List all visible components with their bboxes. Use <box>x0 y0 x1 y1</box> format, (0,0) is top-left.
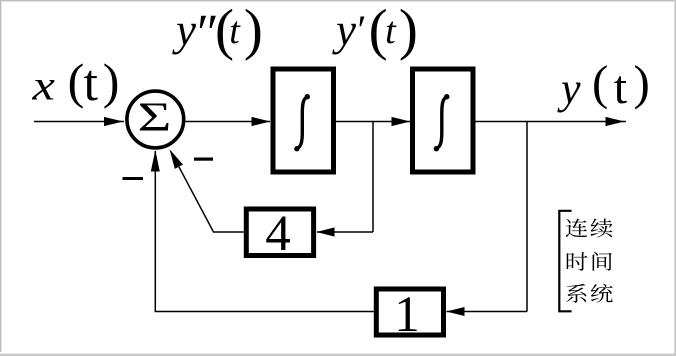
integrator block 2 <box>413 69 474 172</box>
node tap output <box>526 122 528 312</box>
summing junction U1 circle <box>127 91 184 148</box>
integrator block 1 <box>273 69 334 172</box>
minus sign near diagonal feedback <box>194 158 213 161</box>
wire integrator2 to output y(t) <box>476 121 627 123</box>
border frame left <box>0 0 1 352</box>
wire input x(t) to summer <box>34 121 124 123</box>
border frame right <box>674 0 676 356</box>
integral sign 2 <box>434 94 450 151</box>
svg-text:4: 4 <box>265 206 291 262</box>
arrowhead into block K1 <box>446 307 464 316</box>
svg-text:y: y <box>172 5 196 55</box>
label y''(t) <box>172 0 263 62</box>
label y'(t) <box>332 0 418 62</box>
border frame bottom <box>0 354 676 356</box>
svg-text:(: ( <box>592 55 608 110</box>
arrowhead diagonal into summer <box>170 149 184 169</box>
svg-text:(: ( <box>68 53 85 109</box>
svg-text:y: y <box>557 64 581 113</box>
svg-text:t: t <box>614 61 628 114</box>
bracket for annotation <box>559 211 571 311</box>
annotation text 时 <box>567 252 588 271</box>
wire integrator1 to integrator2 <box>336 121 410 123</box>
arrowhead into summer <box>104 117 123 126</box>
label y(t) <box>557 55 650 114</box>
node tap y'(t) <box>372 122 374 233</box>
svg-text:): ) <box>103 53 120 109</box>
svg-text:′: ′ <box>358 6 367 52</box>
integral sign 1 <box>294 94 310 151</box>
wire tap to block K1 <box>447 311 528 313</box>
arrowhead into integrator 1 <box>252 117 271 126</box>
gain block K4 value 4 <box>246 209 313 256</box>
arrowhead into block K4 <box>316 227 334 236</box>
svg-text:x: x <box>31 63 55 109</box>
svg-text:t: t <box>84 55 99 112</box>
svg-text:): ) <box>634 55 650 110</box>
annotation text 间 <box>593 252 612 271</box>
arrowhead output <box>606 117 625 126</box>
label x(t) <box>31 53 119 112</box>
arrowhead into integrator 2 <box>392 117 411 126</box>
svg-text:): ) <box>399 0 418 62</box>
svg-text:y: y <box>332 5 356 55</box>
wire block K4 to summer diagonal <box>179 167 244 232</box>
wire summer to integrator 1 <box>186 121 271 123</box>
svg-text:): ) <box>244 0 263 62</box>
svg-text:1: 1 <box>394 287 420 343</box>
svg-text:t: t <box>385 10 397 52</box>
border frame top <box>0 0 676 1</box>
wire block K1 to summer bottom <box>155 151 373 312</box>
svg-text:t: t <box>229 10 241 52</box>
annotation text 续 <box>591 219 613 238</box>
annotation text 连 <box>566 219 588 238</box>
arrowhead up into summer <box>151 150 160 172</box>
svg-text:Σ: Σ <box>137 94 171 140</box>
annotation text 系 <box>566 284 586 303</box>
annotation text 统 <box>591 284 613 303</box>
wire tap to block K4 <box>317 231 373 233</box>
minus sign near vertical feedback <box>123 177 144 180</box>
gain block K1 value 1 <box>376 289 443 335</box>
